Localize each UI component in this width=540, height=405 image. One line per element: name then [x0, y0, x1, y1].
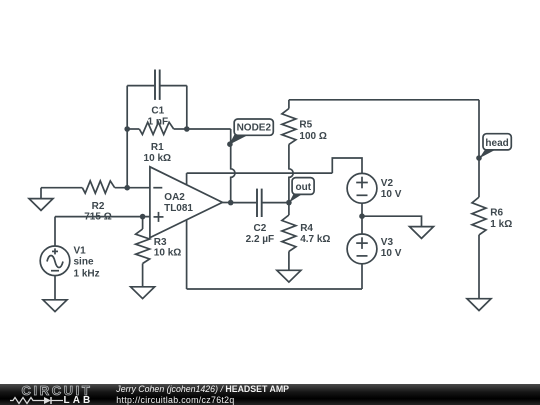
svg-text:1 kHz: 1 kHz	[74, 268, 100, 279]
wire V2 bottom	[361, 203, 363, 216]
svg-text:OA2: OA2	[164, 192, 185, 203]
resistor R4	[282, 215, 296, 251]
flag NODE2	[229, 119, 273, 145]
svg-text:V2: V2	[381, 178, 394, 189]
wire R5 bottom with hop	[289, 144, 293, 202]
resistor R5	[282, 109, 296, 145]
wire R1 left lead	[127, 128, 139, 130]
wire V1 bottom	[54, 276, 56, 300]
svg-text:R1: R1	[151, 142, 164, 153]
svg-text:R5: R5	[299, 119, 312, 130]
flag out	[289, 178, 314, 203]
voltage source V2	[347, 173, 377, 203]
ground (R6)	[467, 299, 491, 311]
wire C1 right vertical	[186, 86, 188, 129]
wire non-inverting input row	[55, 216, 150, 218]
svg-text:out: out	[296, 182, 312, 193]
wire op-amp output stub	[222, 202, 230, 204]
svg-text:R6: R6	[490, 208, 503, 219]
wire op-amp bottom pin	[186, 220, 188, 289]
svg-text:C2: C2	[254, 223, 267, 234]
resistor R2	[82, 181, 114, 193]
resistor R6	[472, 197, 486, 235]
svg-text:R2: R2	[92, 201, 105, 212]
svg-text:sine: sine	[74, 257, 94, 268]
op-amp OA2	[150, 167, 223, 238]
svg-text:10 V: 10 V	[381, 248, 402, 259]
ground (V2 V3 midpoint)	[410, 227, 434, 239]
capacitor C1	[155, 70, 160, 100]
wire R6 top lead	[478, 100, 480, 197]
svg-text:10 kΩ: 10 kΩ	[144, 153, 171, 164]
wire node2 vertical with hop	[231, 129, 235, 203]
svg-text:100 Ω: 100 Ω	[299, 131, 326, 142]
svg-text:V3: V3	[381, 237, 394, 248]
svg-text:715 Ω: 715 Ω	[84, 211, 111, 222]
svg-text:10 V: 10 V	[381, 189, 402, 200]
svg-text:head: head	[485, 138, 508, 149]
CircuitLab logo	[22, 383, 93, 398]
ground (R3)	[131, 287, 155, 299]
node junction dots	[124, 126, 481, 219]
wire R3 top lead	[142, 217, 144, 229]
wire ground lead R2 left	[41, 187, 82, 189]
wire V3 bottom	[361, 264, 363, 289]
svg-text:1 kΩ: 1 kΩ	[490, 219, 512, 230]
voltage source V3	[347, 234, 377, 264]
wire output to C2	[231, 202, 257, 204]
svg-text:C1: C1	[151, 105, 164, 116]
svg-text:TL081: TL081	[164, 203, 193, 214]
wire R1 right lead	[174, 128, 187, 130]
wire V3 top	[361, 216, 363, 234]
wire node2 horizontal	[187, 128, 231, 130]
wire bottom rail	[187, 288, 362, 290]
svg-text:V1: V1	[74, 246, 87, 257]
bottom attribution bar	[0, 384, 540, 405]
voltage source V1	[40, 246, 70, 276]
wire R5 top lead	[288, 100, 290, 109]
wire C1 right lead	[161, 85, 187, 87]
wire top rail	[289, 99, 479, 101]
wire R4 bottom lead	[288, 251, 290, 270]
ground (R2 left)	[29, 188, 53, 211]
ground (R4)	[277, 270, 301, 282]
capacitor C2	[257, 189, 262, 217]
wire C1 left vertical	[126, 86, 128, 188]
wire C2 to out node	[263, 202, 289, 204]
wire top pin to V2	[187, 172, 333, 174]
svg-text:NODE2: NODE2	[237, 123, 272, 134]
wire V1 top	[54, 217, 56, 246]
svg-text:R4: R4	[300, 223, 313, 234]
svg-text:10 kΩ: 10 kΩ	[154, 247, 181, 258]
wire inverting input	[115, 187, 150, 189]
wire R6 bottom lead	[478, 235, 480, 299]
svg-text:1 nF: 1 nF	[148, 117, 169, 128]
wire C1 top-left lead	[127, 85, 154, 87]
svg-text:4.7 kΩ: 4.7 kΩ	[300, 234, 330, 245]
wire R4 top lead	[288, 203, 290, 215]
ground (V1)	[43, 300, 67, 312]
wire mid to ground	[362, 216, 422, 226]
svg-text:2.2 µF: 2.2 µF	[246, 234, 275, 245]
flag head	[479, 134, 511, 159]
wire R3 bottom lead	[142, 264, 144, 287]
resistor R1	[139, 122, 173, 134]
wire op-amp top pin	[186, 173, 188, 185]
resistor R3	[136, 229, 150, 264]
